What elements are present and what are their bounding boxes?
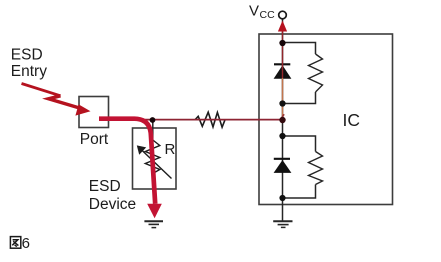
svg-text:IC: IC [343, 110, 361, 130]
svg-text:Port: Port [80, 131, 109, 148]
svg-text:Entry: Entry [11, 63, 47, 80]
svg-text:V: V [249, 3, 259, 20]
svg-text:Device: Device [89, 196, 136, 213]
svg-text:ESD: ESD [89, 178, 121, 195]
svg-text:ESD: ESD [11, 47, 43, 64]
svg-text:CC: CC [260, 9, 276, 21]
svg-text:R: R [165, 141, 176, 158]
svg-text:6: 6 [22, 235, 30, 252]
